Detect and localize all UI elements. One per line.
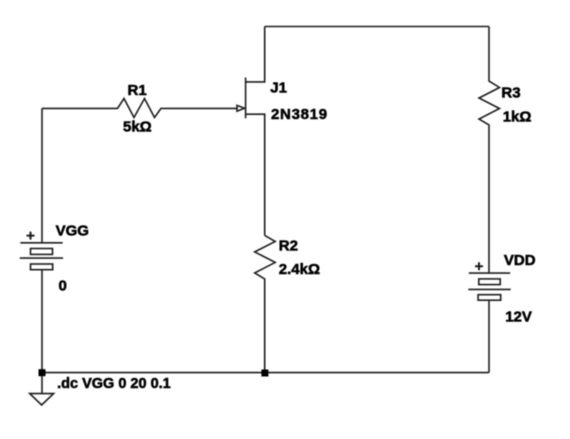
svg-text:5kΩ: 5kΩ — [123, 119, 152, 136]
svg-text:J1: J1 — [270, 80, 287, 97]
svg-text:.dc VGG 0 20 0.1: .dc VGG 0 20 0.1 — [57, 376, 171, 392]
svg-text:R2: R2 — [279, 238, 298, 255]
svg-text:2N3819: 2N3819 — [271, 106, 328, 123]
svg-text:VDD: VDD — [504, 252, 536, 269]
svg-text:1kΩ: 1kΩ — [503, 108, 532, 125]
svg-text:12V: 12V — [505, 309, 532, 326]
svg-text:R3: R3 — [501, 85, 520, 102]
svg-text:R1: R1 — [128, 82, 147, 99]
svg-text:2.4kΩ: 2.4kΩ — [279, 261, 320, 278]
svg-text:VGG: VGG — [56, 222, 89, 239]
svg-text:0: 0 — [59, 277, 67, 294]
